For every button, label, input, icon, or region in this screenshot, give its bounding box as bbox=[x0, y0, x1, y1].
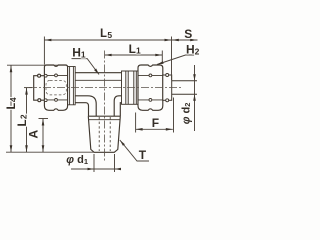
L1 right extension line bbox=[161, 51, 163, 63]
L1 right arrow bbox=[155, 54, 162, 57]
dim L5 line bbox=[44, 39, 171, 41]
dim S line bbox=[172, 39, 198, 41]
small tube right bbox=[172, 81, 197, 95]
L5/S right extension line bbox=[171, 37, 173, 81]
phi-d1 right arrow bbox=[115, 168, 122, 171]
left nut bbox=[44, 65, 67, 110]
T leader arrow bbox=[120, 140, 125, 146]
H2 leader bbox=[157, 55, 199, 65]
right nut circle bottom bbox=[149, 99, 152, 102]
L5 right arrow bbox=[165, 39, 172, 42]
F right extension line bbox=[173, 98, 175, 133]
male taper thread bbox=[88, 116, 120, 152]
arrowheads bbox=[10, 39, 198, 171]
right collar bbox=[122, 71, 139, 104]
L5 left extension line bbox=[43, 37, 45, 65]
svg-text:A: A bbox=[27, 130, 41, 139]
left washer bbox=[68, 67, 76, 105]
phi-d1 right extension line bbox=[114, 154, 116, 172]
H2 leader arrow bbox=[157, 61, 164, 64]
phi-d2 top arrow bbox=[193, 74, 196, 81]
H1 leader arrow bbox=[94, 69, 99, 75]
hidden sleeve in left nut bbox=[46, 80, 66, 95]
dim L1 line bbox=[105, 54, 163, 56]
left tube stub bbox=[34, 76, 45, 101]
dim F line bbox=[136, 128, 173, 130]
L5 left arrow bbox=[44, 39, 51, 42]
A top arrow bbox=[42, 119, 45, 126]
left nut circle bottom bbox=[55, 99, 58, 102]
dim phi-d2 line bbox=[194, 65, 196, 131]
right collar circle top bbox=[166, 74, 169, 77]
A top extension line bbox=[39, 118, 49, 120]
F left arrow bbox=[136, 128, 143, 131]
L4 top arrow bbox=[10, 65, 13, 72]
bottom extension line bbox=[6, 151, 94, 153]
dim L2 line bbox=[26, 88, 28, 153]
dim A line bbox=[42, 119, 44, 153]
svg-text:S: S bbox=[184, 27, 192, 41]
left nut skirt circle top bbox=[44, 74, 47, 77]
right nut bbox=[138, 65, 163, 110]
thread bore hidden line right bbox=[109, 117, 111, 151]
F right arrow bbox=[166, 128, 173, 131]
L4 bottom arrow bbox=[10, 145, 13, 152]
phi-d2 bottom arrow bbox=[193, 94, 196, 101]
left tube circle bottom bbox=[38, 99, 41, 102]
phi-d1 left arrow bbox=[88, 168, 95, 171]
S left arrow bbox=[172, 39, 179, 42]
H1 leader bbox=[72, 59, 100, 75]
svg-text:T: T bbox=[139, 148, 147, 162]
horizontal centerline bbox=[29, 87, 183, 89]
left nut skirt circle bottom bbox=[44, 99, 47, 102]
body bbox=[75, 73, 121, 117]
vertical branch centerline bbox=[104, 51, 106, 162]
right nut circle top bbox=[149, 74, 152, 77]
left tube circle top bbox=[38, 74, 41, 77]
L2 top arrow bbox=[25, 88, 28, 95]
left nut circle top bbox=[55, 74, 58, 77]
F left extension line bbox=[135, 113, 137, 133]
L4 top extension line bbox=[7, 64, 66, 66]
L1 left arrow bbox=[105, 54, 112, 57]
L2 bottom arrow bbox=[25, 145, 28, 152]
right collar circle bottom bbox=[166, 99, 169, 102]
phi-d1 left extension line bbox=[93, 154, 95, 172]
dim L4 line bbox=[10, 65, 12, 152]
right end collar bbox=[163, 75, 172, 100]
thread bore hidden line left bbox=[98, 117, 100, 151]
T leader bbox=[120, 140, 149, 161]
dim phi-d1 line bbox=[71, 168, 121, 170]
S right arrow bbox=[190, 39, 197, 42]
svg-text:F: F bbox=[152, 116, 159, 130]
dimension graphics bbox=[6, 37, 199, 173]
hidden sleeve in right nut bbox=[140, 80, 162, 95]
L2 top extension line bbox=[24, 87, 32, 89]
A bottom arrow bbox=[42, 145, 45, 152]
